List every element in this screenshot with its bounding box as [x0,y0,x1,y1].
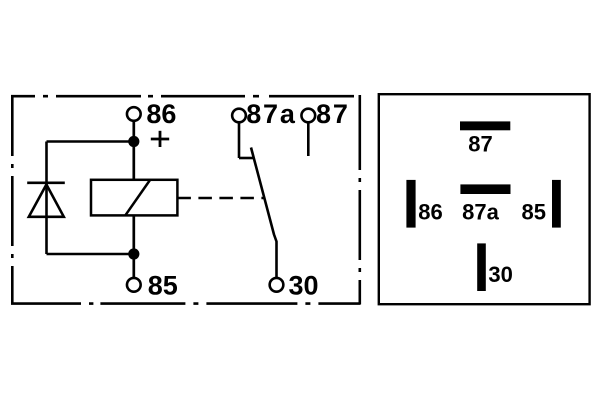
switch blade (movable contact to terminal 30) [251,148,277,279]
wire terminal 87a lead [238,122,241,158]
svg-text:87: 87 [316,99,350,129]
pin 87a (center blade) [460,184,510,194]
svg-text:86: 86 [418,200,442,225]
svg-text:87: 87 [468,131,492,156]
terminal 87 [301,109,315,123]
pin 86 (left blade) [406,180,415,228]
diode D1 (anode triangle) [29,185,64,217]
svg-text:87a: 87a [246,99,296,129]
node B (junction) [128,248,139,259]
terminal 85 [127,278,141,292]
wire terminal 87 stub [307,122,310,156]
pin 30 (bottom blade) [477,243,486,291]
wire lower branch to node B (horizontal) [47,253,134,256]
wire node A to coil top [132,146,135,180]
svg-text:30: 30 [488,262,512,287]
plus polarity mark [151,131,169,147]
wire node A to diode branch (horizontal) [47,140,134,143]
terminal 30 [270,278,284,292]
wire node B to terminal 85 [132,258,135,278]
svg-text:87a: 87a [462,200,499,225]
svg-text:85: 85 [148,270,178,300]
connector base outline (pin view) [379,94,590,304]
wire coil bottom to node B [132,215,135,250]
node A (junction) [128,136,139,147]
diode D1 (cathode bar) [27,182,65,185]
pin 87 (top blade) [460,121,510,130]
svg-text:30: 30 [289,270,319,300]
terminal 87a [232,109,246,123]
svg-text:86: 86 [146,99,176,129]
fixed contact 87a (tick) [239,157,254,160]
relay enclosure K1 (dash-dot boundary box) [11,95,361,304]
wire diode branch vertical (through diode) [45,142,48,255]
wire terminal 86 to node A [132,121,135,137]
svg-text:85: 85 [522,200,546,225]
pin 85 (right blade) [552,180,561,228]
mechanical link (dashed) coil to contact blade [177,197,264,200]
relay coil L1 [91,180,177,216]
terminal 86 [127,107,141,121]
